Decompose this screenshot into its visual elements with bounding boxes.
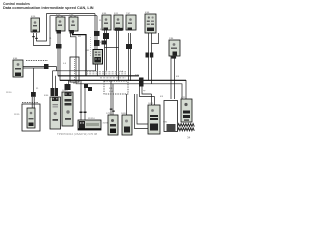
svg-text:4R: 4R — [78, 36, 81, 38]
svg-text:11/10: 11/10 — [6, 92, 12, 94]
svg-text:34: 34 — [187, 136, 191, 140]
svg-text:16/31: 16/31 — [148, 103, 154, 105]
svg-text:16/50: 16/50 — [121, 113, 127, 115]
svg-text:11/15: 11/15 — [14, 114, 20, 116]
svg-text:16/49: 16/49 — [62, 90, 68, 92]
svg-text:LIN: LIN — [109, 91, 113, 93]
svg-text:K-19: K-19 — [109, 88, 114, 90]
svg-text:Data communication intermediat: Data communication intermediate speed CA… — [3, 6, 94, 10]
svg-text:31/316: 31/316 — [88, 118, 95, 120]
svg-text:TP39701612 (USA0711) V70 08: TP39701612 (USA0711) V70 08 — [57, 132, 98, 136]
svg-text:31/31: 31/31 — [103, 123, 109, 125]
